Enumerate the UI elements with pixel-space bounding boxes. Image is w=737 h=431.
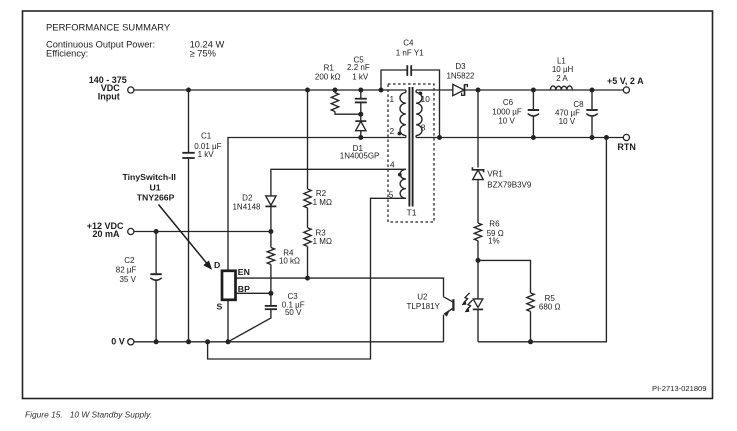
- node: D3 cathode junction: [476, 88, 481, 93]
- wire: C5 clamp branch: [360, 90, 362, 98]
- node: feedback drop on RTN: [604, 135, 609, 140]
- wire: R1 clamp branch: [334, 90, 336, 93]
- svg-text:C4: C4: [403, 39, 414, 48]
- node: C5 top on HV rail: [358, 88, 363, 93]
- node: C4 right on RTN: [437, 135, 442, 140]
- resistor R5: [527, 293, 534, 312]
- svg-text:1N4148: 1N4148: [232, 202, 261, 211]
- node: C8 top: [590, 88, 595, 93]
- wire: D3 cathode to +5V terminal: [465, 89, 624, 91]
- wire: S pin to 0V rail: [227, 300, 229, 342]
- svg-text:10: 10: [421, 94, 431, 104]
- node: R4-C3 on BP line: [268, 291, 273, 296]
- svg-text:Efficiency:: Efficiency:: [46, 49, 88, 59]
- svg-text:200 kΩ: 200 kΩ: [315, 72, 341, 81]
- wire: C4 Y-capacitor loop: [381, 70, 407, 90]
- node: source pin on 0V: [226, 339, 231, 344]
- wire: 0V primary return rail: [134, 341, 444, 343]
- svg-text:R6: R6: [489, 220, 500, 229]
- transformer T1 core: [409, 87, 412, 207]
- node: R3 bottom on EN line: [305, 276, 310, 281]
- svg-text:S: S: [217, 302, 223, 312]
- svg-text:TLP181Y: TLP181Y: [407, 302, 441, 311]
- node: C4 left on HV rail: [379, 88, 384, 93]
- phase dot: bias pin 4: [398, 173, 402, 177]
- wire: C1 branch: [188, 90, 190, 152]
- svg-text:BP: BP: [238, 284, 250, 294]
- svg-text:2 A: 2 A: [556, 74, 568, 83]
- wire: R6 to feedback node: [477, 241, 479, 261]
- svg-text:RTN: RTN: [617, 142, 636, 152]
- svg-text:1 nF Y1: 1 nF Y1: [396, 48, 424, 57]
- wire: C2 branch: [155, 232, 157, 274]
- svg-text:1 kV: 1 kV: [352, 72, 369, 81]
- resistor R4: [267, 248, 274, 265]
- opto U2 LED: [473, 299, 483, 310]
- node: R1 top on HV rail: [333, 88, 338, 93]
- wire: bias winding pin-5 return loop: [208, 198, 406, 359]
- svg-text:D: D: [214, 260, 220, 270]
- node: R2 branch on HV rail: [305, 88, 310, 93]
- wire: EN line to optocoupler collector: [236, 278, 444, 297]
- transformer T1 primary winding (pins 1-2): [400, 90, 406, 138]
- wire: C3 to BP and source: [270, 293, 272, 305]
- svg-text:1000 µF: 1000 µF: [492, 107, 522, 116]
- wire: R5 branch: [478, 260, 531, 293]
- wire: opto LED cathode to secondary return: [477, 309, 479, 341]
- node: C6 top: [531, 88, 536, 93]
- svg-text:35 V: 35 V: [119, 275, 136, 284]
- transformer T1 secondary winding (pins 10-8): [416, 90, 422, 138]
- svg-text:Figure 15. 10 W Standby Supp: Figure 15. 10 W Standby Supply.: [25, 409, 152, 419]
- svg-text:10 µH: 10 µH: [552, 65, 574, 74]
- node: VR1-R6-R5 feedback: [476, 258, 481, 263]
- capacitor C5: [355, 99, 367, 103]
- resistor R1: [331, 93, 338, 112]
- svg-text:680 Ω: 680 Ω: [539, 302, 561, 311]
- svg-text:1: 1: [389, 94, 394, 104]
- node: C2 top on +12V: [154, 229, 159, 234]
- node: R5 bottom: [528, 339, 533, 344]
- diode D3 1N5822 (schottky): [453, 84, 468, 96]
- svg-text:1 MΩ: 1 MΩ: [313, 237, 332, 246]
- svg-text:1 MΩ: 1 MΩ: [313, 198, 332, 207]
- capacitor C8 (polarized): [586, 110, 597, 116]
- svg-text:PI-2713-021809: PI-2713-021809: [652, 384, 706, 393]
- svg-text:10 V: 10 V: [559, 117, 576, 126]
- svg-text:1N5822: 1N5822: [446, 71, 475, 80]
- node: D2-R4 on +12V: [268, 229, 273, 234]
- svg-text:D2: D2: [242, 194, 253, 203]
- capacitor C4 plates: [407, 65, 411, 76]
- resistor R3: [304, 228, 311, 247]
- svg-text:≥ 75%: ≥ 75%: [190, 49, 216, 59]
- capacitor C2 (polarized): [150, 274, 161, 280]
- svg-text:C6: C6: [503, 98, 514, 107]
- svg-text:Input: Input: [98, 91, 120, 101]
- svg-text:U2: U2: [417, 293, 428, 302]
- svg-text:VR1: VR1: [487, 170, 503, 179]
- resistor R6: [474, 223, 481, 241]
- wire: drain / transformer pin-2 line: [228, 138, 406, 271]
- opto U2 light arrows: [462, 293, 473, 312]
- svg-text:10 V: 10 V: [498, 117, 515, 126]
- wire: VR1 anode to R6: [477, 181, 479, 223]
- svg-text:TNY266P: TNY266P: [137, 193, 175, 203]
- node: C2 bottom on 0V: [154, 339, 159, 344]
- terminal: 0 V: [128, 339, 134, 345]
- svg-text:+5 V, 2 A: +5 V, 2 A: [607, 76, 644, 86]
- node: C1 bottom on 0V: [186, 339, 191, 344]
- svg-text:D3: D3: [455, 62, 466, 71]
- wire: opto emitter to 0V rail: [443, 315, 445, 342]
- capacitor C6 (polarized): [528, 110, 539, 116]
- zener VR1 BZX79B3V9: [472, 167, 483, 181]
- phase dot: primary pin 2: [398, 132, 402, 136]
- phase dot: secondary pin 10: [419, 92, 423, 96]
- terminal: RTN: [623, 134, 629, 140]
- transformer T1 dashed outline: [388, 84, 434, 222]
- svg-text:2: 2: [389, 126, 394, 136]
- svg-text:10 kΩ: 10 kΩ: [279, 257, 300, 266]
- node: C1 top on HV rail: [186, 88, 191, 93]
- svg-text:4: 4: [390, 160, 395, 170]
- diode D2 1N4148: [265, 196, 276, 207]
- wire: HV+ input rail: [134, 89, 406, 91]
- node: clamp R1-C5-D1: [358, 112, 363, 117]
- op-amp U1 TNY266P body: [222, 271, 236, 300]
- terminal: +12 VDC: [128, 228, 134, 234]
- svg-text:2.2 nF: 2.2 nF: [347, 63, 370, 72]
- svg-text:U1: U1: [149, 182, 160, 192]
- terminal: VDC input: [128, 87, 134, 93]
- capacitor C1: [182, 153, 194, 158]
- svg-text:R2: R2: [316, 189, 327, 198]
- inductor L1: [550, 86, 572, 90]
- pointer arrow to U1: [159, 205, 212, 270]
- svg-text:1%: 1%: [488, 237, 500, 246]
- svg-text:C1: C1: [201, 132, 212, 141]
- node: D1 anode on drain line: [358, 135, 363, 140]
- svg-text:BZX79B3V9: BZX79B3V9: [487, 180, 532, 189]
- wire: secondary output to D3 anode: [416, 89, 453, 91]
- svg-text:20 mA: 20 mA: [92, 229, 120, 239]
- node: C6 bottom: [531, 135, 536, 140]
- node: C8 bottom: [590, 135, 595, 140]
- svg-text:50 V: 50 V: [285, 308, 302, 317]
- wire: feedback node to opto LED: [477, 260, 479, 299]
- resistor R2: [304, 189, 311, 208]
- terminal: +5 V output: [623, 87, 629, 93]
- svg-text:TinySwitch-II: TinySwitch-II: [122, 172, 175, 182]
- wire: +12V bias line: [134, 231, 271, 233]
- svg-text:82 µF: 82 µF: [116, 266, 137, 275]
- svg-text:EN: EN: [238, 267, 250, 277]
- transformer T1 bias winding (pins 4-5): [400, 169, 406, 198]
- svg-text:1 kV: 1 kV: [198, 150, 215, 159]
- svg-text:T1: T1: [406, 208, 416, 218]
- svg-text:R1: R1: [324, 64, 335, 73]
- wire: secondary return RTN rail: [416, 137, 623, 139]
- wire: BP line: [236, 292, 271, 294]
- wire: transformer pin-4 to D2: [271, 169, 406, 196]
- svg-text:PERFORMANCE SUMMARY: PERFORMANCE SUMMARY: [46, 21, 171, 32]
- diode D1 1N4005GP: [355, 121, 366, 131]
- svg-text:8: 8: [421, 123, 426, 133]
- capacitor C3: [265, 306, 277, 309]
- wire: R2-R3 line sense branch: [307, 90, 309, 189]
- svg-text:5: 5: [389, 189, 394, 199]
- wire: feedback branch +5V to VR1: [477, 90, 479, 168]
- wire: LED return to RTN rail: [478, 138, 606, 342]
- wire: R4 bottom to BP node: [270, 265, 272, 294]
- wire: D1 leads: [360, 114, 362, 120]
- svg-text:0 V: 0 V: [111, 337, 125, 347]
- transistor U2 TLP181Y phototransistor: [444, 297, 454, 314]
- node: bias return jog on 0V: [205, 339, 210, 344]
- svg-text:C2: C2: [124, 256, 135, 265]
- svg-text:1N4005GP: 1N4005GP: [340, 152, 380, 161]
- wire: D2 cathode to +12V node: [270, 206, 272, 247]
